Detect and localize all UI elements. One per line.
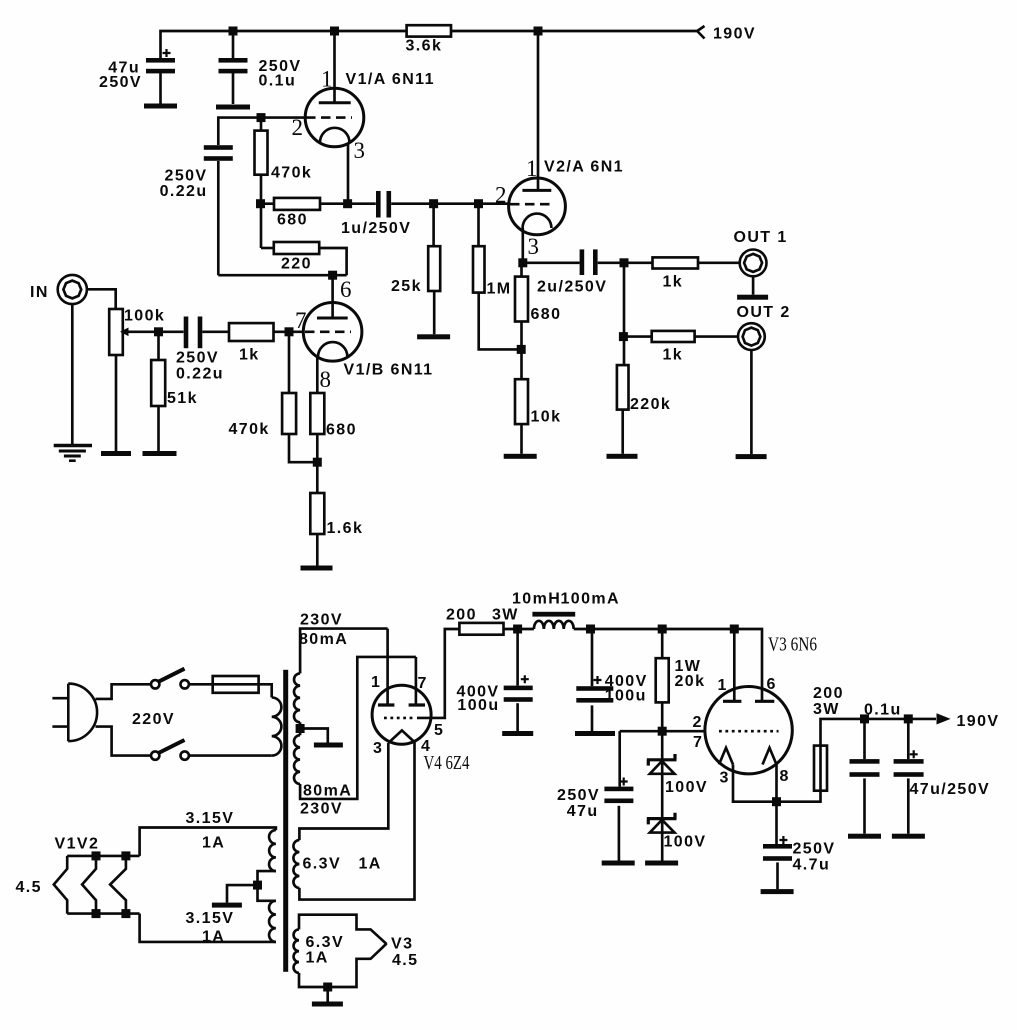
resistor 470k (V1/B) bbox=[282, 393, 296, 434]
wire: IN jack to earth ground bbox=[71, 304, 74, 444]
wire: 1k to V1/B grid bbox=[274, 330, 304, 333]
node: 0.1u bbox=[860, 714, 869, 723]
svg-text:V1/A 6N11: V1/A 6N11 bbox=[346, 71, 435, 88]
wire: pin7 V4 bbox=[415, 657, 418, 705]
capacitor 47u/250V output bbox=[907, 719, 910, 759]
wire: 1k to OUT2 jack bbox=[695, 335, 738, 338]
wire: 680 to node A bbox=[320, 202, 348, 205]
earth ground (IN jack) bbox=[54, 444, 92, 447]
ground (OUT1) bbox=[737, 295, 768, 300]
wire: 1M to cathode node bbox=[479, 293, 522, 350]
chevron contact 1 bbox=[54, 856, 67, 914]
svg-text:8: 8 bbox=[780, 768, 790, 785]
ground (250V 47u) bbox=[602, 861, 635, 866]
node: 25k top bbox=[429, 199, 438, 208]
svg-text:V4 6Z4: V4 6Z4 bbox=[424, 752, 470, 774]
svg-text:250V: 250V bbox=[793, 841, 836, 858]
connector IN jack bbox=[58, 275, 87, 304]
capacitor 47u/250V (filter) bbox=[146, 58, 175, 63]
wire: wiper to 0.22u bbox=[128, 330, 184, 333]
svg-text:V3 6N6: V3 6N6 bbox=[768, 634, 817, 656]
svg-text:3W: 3W bbox=[492, 607, 519, 624]
svg-text:80mA: 80mA bbox=[299, 631, 348, 648]
wire: V1/A grid to 0.22u cap bbox=[218, 118, 306, 145]
svg-text:200: 200 bbox=[813, 685, 844, 702]
svg-text:7: 7 bbox=[295, 308, 307, 333]
wire: rail to 20k bbox=[661, 629, 664, 658]
svg-text:220: 220 bbox=[281, 256, 312, 273]
tube V3 6N6 envelope bbox=[705, 687, 792, 774]
svg-text:47u/250V: 47u/250V bbox=[910, 781, 991, 798]
svg-text:1k: 1k bbox=[663, 347, 684, 364]
svg-text:190V: 190V bbox=[713, 26, 756, 43]
resistor R 3.6k bbox=[407, 25, 451, 36]
connector OUT2 jack bbox=[738, 323, 765, 350]
wire: V1V2 rail to 3.15V top bbox=[140, 828, 276, 856]
node: 1k/470k bbox=[285, 327, 294, 336]
svg-text:100u: 100u bbox=[457, 697, 499, 714]
wire: fuse to primary bbox=[259, 684, 272, 697]
svg-text:1: 1 bbox=[321, 67, 333, 92]
capacitor 2u/250V bbox=[580, 249, 585, 275]
ground (47u cap) bbox=[144, 104, 177, 109]
resistor 1M bbox=[473, 246, 485, 292]
wire: 25k to ground bbox=[433, 291, 436, 334]
node: HV center tap bbox=[296, 724, 305, 733]
node: OUT2 branch bbox=[619, 332, 628, 341]
svg-text:1.6k: 1.6k bbox=[327, 520, 364, 537]
fuse bbox=[213, 676, 259, 693]
wire: rail to 0.1u cap bbox=[232, 31, 235, 58]
wire: 680 to node bbox=[520, 322, 523, 350]
ground (0.1u cap) bbox=[216, 105, 250, 110]
ground (47u/250V) bbox=[892, 834, 925, 839]
capacitor 1u/250V coupling bbox=[348, 202, 376, 205]
resistor 200 3W (PSU) bbox=[459, 623, 503, 635]
wire: node to 25k bbox=[432, 204, 435, 247]
node bbox=[121, 851, 130, 860]
svg-text:1: 1 bbox=[526, 156, 538, 181]
tube V2/A cathode bbox=[523, 214, 552, 228]
wire: 20k to grid node/zener chain bbox=[661, 702, 664, 860]
wire: 0.1u cap to ground bbox=[232, 73, 235, 104]
svg-text:2u/250V: 2u/250V bbox=[537, 279, 607, 296]
ground (51k) bbox=[143, 451, 177, 456]
svg-text:1k: 1k bbox=[663, 274, 684, 291]
svg-text:6.3V: 6.3V bbox=[303, 856, 342, 873]
wire: 0.22u cap down to pin6 line bbox=[217, 161, 220, 275]
svg-text:4.7u: 4.7u bbox=[793, 857, 831, 874]
node: 1M top bbox=[474, 199, 483, 208]
resistor 680 (V1/B cathode) bbox=[310, 393, 324, 434]
svg-text:3: 3 bbox=[354, 138, 366, 163]
tube V2/A grid (dashed) bbox=[510, 203, 553, 206]
node: heater center tap bbox=[253, 881, 262, 890]
svg-text:100u: 100u bbox=[605, 688, 647, 705]
svg-text:3: 3 bbox=[528, 234, 540, 259]
wire: pin1 V3 bbox=[733, 629, 736, 701]
wire: pin3 V2/A down bbox=[521, 228, 524, 263]
connector OUT1 jack bbox=[740, 250, 767, 277]
svg-text:80mA: 80mA bbox=[303, 783, 352, 800]
resistor 680 (V1/A cathode) bbox=[274, 198, 320, 210]
wire: choke to B+ node / V3 pin6 bbox=[574, 629, 762, 701]
wire: HV bottom to V4 pin7 bbox=[300, 657, 416, 799]
svg-text:1k: 1k bbox=[239, 347, 260, 364]
wire: 200 to choke bbox=[504, 628, 534, 631]
svg-text:1: 1 bbox=[718, 677, 728, 694]
tube V4 cathode heater bbox=[388, 730, 415, 743]
capacitor 47u/250V bbox=[894, 759, 924, 764]
ground (4.7u) bbox=[761, 889, 794, 894]
wire: to ground bbox=[326, 987, 329, 1002]
connector mains plug bbox=[68, 684, 97, 742]
ground (0.1u) bbox=[848, 834, 881, 839]
wire: pin8 V3 down bbox=[775, 765, 778, 845]
wire: 680 to 1.6k bbox=[316, 434, 319, 493]
resistor 470k upper bbox=[255, 131, 268, 175]
node: V3 grid bbox=[658, 727, 667, 736]
svg-text:6: 6 bbox=[767, 676, 777, 693]
wire: 10k to ground bbox=[520, 424, 523, 454]
svg-text:7: 7 bbox=[418, 675, 428, 692]
wire: 200 3W to 190V rail bbox=[819, 746, 822, 791]
connector V3 heater plug bbox=[299, 915, 387, 944]
svg-text:100mA: 100mA bbox=[561, 591, 620, 608]
wire: node to 1k OUT2 bbox=[623, 335, 651, 338]
svg-text:IN: IN bbox=[30, 284, 49, 301]
wire: IN jack to pot bbox=[87, 289, 116, 309]
wire: pin3 V3 to cathode bus bbox=[733, 765, 821, 802]
tube V1/A anode plate bbox=[319, 101, 351, 104]
svg-text:3.6k: 3.6k bbox=[406, 38, 443, 55]
wire: pin6 horizontal bbox=[218, 274, 346, 277]
svg-text:51k: 51k bbox=[167, 390, 198, 407]
svg-text:0.22u: 0.22u bbox=[176, 366, 224, 383]
svg-text:1A: 1A bbox=[202, 835, 225, 852]
tube V1/B grid (dashed) bbox=[305, 330, 351, 333]
svg-text:250V: 250V bbox=[176, 350, 219, 367]
connector 190V arrow (output) bbox=[937, 713, 951, 724]
ground (6.3V) bbox=[312, 1002, 343, 1007]
node: wiper/51k bbox=[154, 327, 163, 336]
node: output split bbox=[620, 258, 629, 267]
resistor 680 (V2/A cathode) bbox=[515, 277, 528, 322]
node: V2/A cathode out bbox=[518, 258, 527, 267]
potentiometer 100k bbox=[109, 309, 123, 355]
wire: 3.15V center tap link bbox=[258, 871, 276, 901]
transformer HV secondary lower 230V/80mA bbox=[294, 735, 300, 784]
wire: 220 to pin6 line bbox=[319, 248, 346, 275]
resistor 1k (OUT1) bbox=[653, 257, 699, 268]
svg-text:220V: 220V bbox=[132, 711, 175, 728]
svg-text:1A: 1A bbox=[359, 856, 382, 873]
ground (center tap) bbox=[314, 743, 343, 748]
wire: pot to ground bbox=[115, 355, 118, 451]
wire: OUT2 to ground bbox=[750, 350, 753, 454]
svg-text:470k: 470k bbox=[271, 165, 312, 182]
node: rail junction at 0.1u cap bbox=[229, 27, 238, 36]
wire: 1u cap to V2/A grid bbox=[391, 202, 509, 205]
svg-text:1A: 1A bbox=[306, 950, 329, 967]
svg-text:250V: 250V bbox=[99, 74, 142, 91]
svg-text:5: 5 bbox=[434, 722, 444, 739]
plug prong bottom bbox=[52, 725, 68, 728]
svg-text:47u: 47u bbox=[567, 803, 599, 820]
ground (heater CT) bbox=[212, 903, 242, 908]
switch S1b bbox=[151, 751, 159, 759]
tube V1/A cathode bbox=[320, 128, 349, 143]
svg-text:0.1u: 0.1u bbox=[259, 73, 297, 90]
capacitor 250V/4.7u bbox=[763, 844, 792, 849]
ground (10k) bbox=[504, 454, 537, 459]
capacitor 2u/250V output coupling bbox=[523, 261, 580, 264]
wire: center tap to ground bbox=[227, 885, 258, 903]
wire: 470k to junction bbox=[289, 434, 317, 462]
resistor 10k bbox=[515, 379, 528, 424]
wire: grid node to 470k bbox=[288, 332, 291, 393]
svg-text:470k: 470k bbox=[229, 421, 270, 438]
wire: 1.6k to ground bbox=[316, 534, 319, 566]
capacitor 400V/100u #1 bbox=[504, 686, 533, 691]
resistor 1k grid stopper bbox=[229, 323, 274, 341]
node: 47u bbox=[904, 714, 913, 723]
svg-text:680: 680 bbox=[531, 306, 562, 323]
svg-text:220k: 220k bbox=[630, 396, 671, 413]
tube V2/A anode plate bbox=[522, 189, 551, 192]
svg-text:680: 680 bbox=[326, 422, 357, 439]
wire: plug to switch (top) bbox=[96, 684, 152, 699]
svg-text:OUT 1: OUT 1 bbox=[734, 229, 788, 246]
svg-text:3: 3 bbox=[720, 770, 730, 787]
node bbox=[121, 909, 130, 918]
resistor 51k bbox=[151, 360, 165, 406]
wire: 51k to ground bbox=[157, 406, 160, 451]
chevron contact 2 bbox=[82, 856, 96, 914]
svg-text:V3: V3 bbox=[391, 936, 413, 953]
node: rail junction at V1/A pin1 bbox=[330, 27, 339, 36]
svg-text:6.3V: 6.3V bbox=[306, 934, 345, 951]
resistor 20k 1W bbox=[656, 658, 669, 702]
wire: 47u cap to ground bbox=[159, 73, 162, 104]
wire to 220 bbox=[261, 247, 274, 250]
wire: 220k to ground bbox=[621, 410, 624, 454]
tube V4 6Z4 envelope bbox=[372, 685, 431, 744]
svg-text:100V: 100V bbox=[665, 779, 708, 796]
capacitor 400V/100u #2 bbox=[576, 686, 613, 691]
wire: 3.15V bottom to V1V2 rail bbox=[140, 914, 276, 942]
svg-text:1M: 1M bbox=[487, 281, 512, 298]
plug prong top bbox=[52, 697, 68, 700]
svg-text:250V: 250V bbox=[165, 168, 208, 185]
svg-text:4.5: 4.5 bbox=[16, 879, 42, 896]
wire: grid node horizontal bbox=[620, 730, 705, 733]
node: V1/B pin6 bbox=[328, 271, 337, 280]
tube V1/B 6N11 envelope bbox=[303, 303, 362, 362]
svg-text:20k: 20k bbox=[675, 673, 706, 690]
svg-text:0.22u: 0.22u bbox=[160, 183, 208, 200]
wire: node to 1M bbox=[477, 204, 480, 247]
capacitor 0.22u/250V input bbox=[184, 317, 189, 349]
svg-text:OUT 2: OUT 2 bbox=[737, 304, 791, 321]
capacitor 1u/250V bbox=[376, 191, 381, 218]
resistor 1k (OUT2) bbox=[652, 331, 695, 342]
capacitor 0.22u/250V upper bbox=[204, 145, 233, 150]
tube V1/B cathode bbox=[318, 342, 347, 357]
capacitor 0.1u bbox=[850, 759, 880, 764]
wire: pin3 V4 to 6.3V winding bbox=[299, 743, 388, 840]
svg-text:2: 2 bbox=[495, 183, 507, 208]
svg-text:200: 200 bbox=[446, 607, 477, 624]
resistor 220 (feedback) bbox=[274, 242, 319, 254]
node: cathode bus bbox=[772, 797, 781, 806]
capacitor 0.1u/250V bbox=[219, 58, 248, 63]
wire: pin4 V4 to 6.3V winding bbox=[299, 743, 414, 900]
pot wiper arrow bbox=[120, 328, 129, 337]
capacitor 400V/100u first bbox=[516, 629, 519, 686]
svg-text:250V: 250V bbox=[557, 787, 600, 804]
svg-text:100V: 100V bbox=[664, 834, 707, 851]
svg-text:0.1u: 0.1u bbox=[864, 702, 902, 719]
wire: pin3 V1/A down bbox=[347, 143, 350, 204]
svg-text:25k: 25k bbox=[391, 278, 422, 295]
wire: to OUT2 branch bbox=[623, 263, 626, 365]
ground (zeners) bbox=[645, 861, 678, 866]
svg-text:100k: 100k bbox=[124, 308, 165, 325]
wire: node to 10k bbox=[520, 349, 523, 379]
ground (100u #1) bbox=[502, 731, 533, 736]
wire: HV top to V4 pin1 bbox=[300, 629, 388, 674]
wire: B+ top rail 190V bbox=[161, 31, 407, 58]
wire: 1k to OUT1 jack bbox=[698, 261, 740, 264]
tube V4 anode plates bbox=[378, 703, 394, 706]
wire: switch to fuse bbox=[189, 683, 213, 686]
wire: OUT1 to ground bbox=[752, 276, 755, 294]
resistor 25k bbox=[428, 246, 440, 291]
wire: V1V2 bottom rail bbox=[67, 912, 139, 915]
capacitor 250V/47u bbox=[604, 787, 633, 792]
tube V3 anode plates bbox=[723, 700, 741, 703]
wire: center tap to ground bbox=[300, 729, 328, 743]
ground (OUT2) bbox=[736, 454, 767, 459]
capacitor 400V/100u second bbox=[591, 629, 594, 686]
svg-text:1u/250V: 1u/250V bbox=[341, 220, 411, 237]
node: V3 pin1 bbox=[730, 625, 739, 634]
svg-text:230V: 230V bbox=[300, 612, 343, 629]
resistor 1.6k bbox=[310, 493, 324, 534]
node: second filter cap bbox=[586, 625, 595, 634]
svg-text:680: 680 bbox=[277, 212, 308, 229]
tube V1/A 6N11 envelope bbox=[305, 88, 364, 147]
svg-text:190V: 190V bbox=[957, 713, 1000, 730]
svg-text:3.15V: 3.15V bbox=[186, 910, 235, 927]
svg-text:3.15V: 3.15V bbox=[186, 810, 235, 827]
switch S1a bbox=[151, 680, 159, 688]
ground (1.6k) bbox=[301, 566, 333, 571]
svg-text:7: 7 bbox=[693, 734, 703, 751]
wire: cap to 1k bbox=[202, 330, 229, 333]
wire: switch to primary bbox=[189, 754, 272, 757]
node: 6.3V ground tap bbox=[323, 983, 332, 992]
resistor 200 3W (output) bbox=[814, 746, 827, 791]
ground (220k) bbox=[607, 454, 638, 459]
wire: node to 680 bbox=[520, 263, 523, 277]
svg-text:10mH: 10mH bbox=[512, 591, 561, 608]
node bbox=[92, 909, 101, 918]
wire: pin6 V1/B bbox=[331, 275, 334, 318]
ground (25k) bbox=[417, 334, 450, 339]
node: 20k top bbox=[658, 625, 667, 634]
svg-text:1: 1 bbox=[371, 674, 381, 691]
wire: V1V2 top rail bbox=[67, 855, 139, 858]
wire: pin5 V4 out bbox=[417, 629, 459, 718]
tube V3 grid (dotted) bbox=[719, 730, 779, 733]
tube V1/B anode plate bbox=[317, 317, 348, 320]
node: grid/470k junction bbox=[257, 113, 266, 122]
node: 470k/680 junction bbox=[256, 199, 265, 208]
svg-text:4.5: 4.5 bbox=[392, 952, 418, 969]
svg-text:8: 8 bbox=[320, 367, 332, 392]
svg-text:6: 6 bbox=[340, 277, 352, 302]
svg-text:2: 2 bbox=[693, 714, 703, 731]
node: rail junction at V2/A pin1 bbox=[534, 27, 543, 36]
transformer T1 primary 220V winding bbox=[272, 697, 282, 755]
wire: pin1 V1/A from rail bbox=[333, 31, 336, 103]
svg-text:10k: 10k bbox=[531, 409, 562, 426]
wire: pin8 V1/B down bbox=[316, 357, 319, 393]
chevron contact 3 bbox=[110, 856, 126, 914]
tube V4 filament (dotted) bbox=[384, 717, 416, 720]
tube V2/A 6N1 envelope bbox=[509, 178, 566, 235]
svg-text:3: 3 bbox=[373, 740, 383, 757]
inductor L1 10mH 100mA bbox=[532, 612, 575, 617]
wire: pin1 V2/A from rail bbox=[537, 31, 540, 190]
wire: 470k to 680/220 bbox=[260, 175, 263, 248]
tube V1/A grid (dashed) bbox=[306, 116, 352, 119]
svg-text:3W: 3W bbox=[813, 701, 840, 718]
wire: 2u to 1k OUT1 bbox=[598, 261, 653, 264]
connector: 190V off-page arrow (top) bbox=[697, 26, 704, 39]
wire: pin1 V4 bbox=[386, 629, 389, 705]
svg-text:V1V2: V1V2 bbox=[55, 836, 100, 853]
tube V3 cathode heaters bbox=[719, 748, 733, 765]
node bbox=[92, 851, 101, 860]
zener D1 100V bbox=[647, 754, 677, 766]
transformer core bbox=[283, 670, 288, 972]
svg-text:V2/A 6N1: V2/A 6N1 bbox=[544, 159, 624, 176]
zener D2 100V bbox=[647, 813, 677, 825]
node: V1/A out bbox=[343, 199, 352, 208]
ground (pot) bbox=[101, 451, 131, 456]
node: 680/10k/1M bbox=[517, 345, 526, 354]
svg-text:V1/B 6N11: V1/B 6N11 bbox=[344, 362, 434, 379]
wire: plug to switch (bottom) bbox=[96, 727, 152, 756]
resistor 220k bbox=[617, 365, 629, 410]
ground (100u #2) bbox=[575, 731, 615, 736]
svg-text:2: 2 bbox=[292, 115, 304, 140]
svg-text:230V: 230V bbox=[300, 801, 343, 818]
node: 470k/680/1.6k bbox=[313, 458, 322, 467]
wire: to 51k bbox=[157, 332, 160, 360]
wire: to 250V/47u cap bbox=[618, 731, 621, 786]
node: first filter cap bbox=[513, 625, 522, 634]
resistor 470k (V1/A grid leak) bbox=[260, 118, 263, 131]
